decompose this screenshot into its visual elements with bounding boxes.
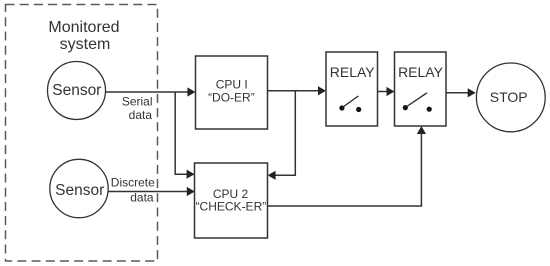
svg-text:“CHECK-ER”: “CHECK-ER” [196, 200, 267, 214]
svg-text:RELAY: RELAY [330, 64, 376, 80]
svg-text:data: data [130, 190, 154, 204]
svg-text:Sensor: Sensor [55, 182, 104, 199]
svg-text:Serial: Serial [122, 94, 153, 108]
svg-text:RELAY: RELAY [398, 64, 444, 80]
svg-text:“DO-ER”: “DO-ER” [208, 90, 255, 104]
svg-text:system: system [60, 36, 111, 53]
svg-text:data: data [129, 108, 153, 122]
svg-text:Discrete: Discrete [111, 176, 155, 190]
svg-text:Monitored: Monitored [48, 19, 119, 36]
svg-text:CPU 2: CPU 2 [213, 187, 249, 201]
svg-text:STOP: STOP [490, 89, 528, 105]
svg-text:Sensor: Sensor [52, 82, 101, 99]
